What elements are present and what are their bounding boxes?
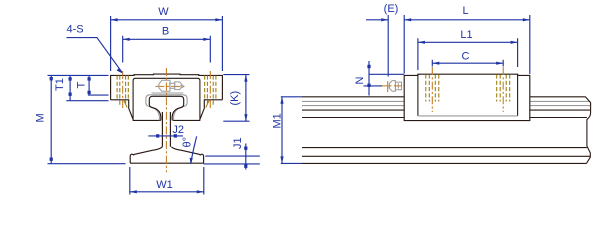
svg-text:M: M — [35, 113, 47, 122]
dimension W — [111, 16, 223, 71]
nipple centerline vertical — [387, 81, 389, 92]
svg-text:W: W — [158, 6, 169, 18]
rail base corner edge — [302, 155, 590, 157]
block end-plate seams — [418, 74, 518, 116]
rail top edge — [302, 96, 585, 98]
rail groove lines (gray) — [302, 101, 591, 105]
svg-text:θ°: θ° — [182, 137, 194, 148]
dimension M — [48, 75, 126, 163]
dimension J2 — [148, 135, 183, 137]
dimension (K) — [223, 75, 249, 122]
svg-text:J1: J1 — [232, 137, 244, 149]
nipple centerline horizontal — [379, 85, 402, 87]
dimension W1 — [130, 167, 204, 195]
defs — [35, 3, 591, 195]
side hole left (dashed) — [426, 74, 439, 101]
dimension N — [364, 61, 405, 96]
side hole centerlines — [432, 67, 503, 112]
screw hole left (dashed) — [117, 75, 128, 100]
gray channel cup — [146, 95, 187, 121]
dimension M1 — [281, 97, 302, 164]
rail bottom edge — [302, 162, 587, 164]
svg-text:(E): (E) — [384, 3, 399, 15]
dimension L — [404, 15, 530, 74]
rail head lower edge — [302, 109, 590, 111]
svg-text:W1: W1 — [156, 179, 173, 191]
screw hole right (dashed) — [205, 75, 216, 100]
grease nipple (side) — [388, 81, 401, 92]
svg-text:M1: M1 — [272, 113, 284, 128]
svg-text:L1: L1 — [460, 29, 472, 41]
dimension T — [88, 75, 109, 95]
rail neck edge — [302, 117, 587, 119]
gray retainer line — [152, 92, 184, 94]
centerline nipple horizontal — [156, 85, 186, 87]
rail web — [162, 112, 170, 147]
svg-text:T1: T1 — [54, 78, 66, 91]
svg-text:4-S: 4-S — [67, 24, 84, 36]
rail right end profile — [585, 97, 590, 164]
svg-text:L: L — [462, 5, 468, 17]
rail head and block lip — [149, 96, 183, 120]
block inner end-plate outline — [133, 78, 200, 118]
svg-text:J2: J2 — [172, 124, 184, 136]
svg-text:(K): (K) — [229, 91, 241, 106]
grease nipple (section) — [159, 80, 183, 91]
block left wing underside — [111, 100, 161, 121]
dimension J1 — [204, 144, 260, 170]
angle leader — [191, 136, 197, 163]
svg-text:B: B — [162, 26, 169, 38]
centerline vertical — [165, 68, 167, 172]
svg-text:T: T — [76, 82, 88, 89]
rail base — [130, 147, 203, 163]
dimension T1 — [66, 75, 108, 101]
block outer outline — [111, 74, 223, 100]
centerline hole left — [122, 71, 124, 108]
dimension B — [123, 36, 211, 63]
side hole right (dashed) — [497, 74, 510, 101]
block lower gray line — [418, 115, 518, 117]
dimension L1 — [418, 38, 518, 70]
rail base slope edge — [302, 147, 587, 149]
svg-text:C: C — [462, 50, 470, 62]
block right wing underside — [173, 100, 223, 121]
block side body — [404, 74, 530, 120]
dimension (E) — [366, 19, 388, 21]
centerline hole right — [209, 71, 211, 108]
dimension C — [432, 60, 503, 67]
svg-text:N: N — [354, 77, 366, 85]
